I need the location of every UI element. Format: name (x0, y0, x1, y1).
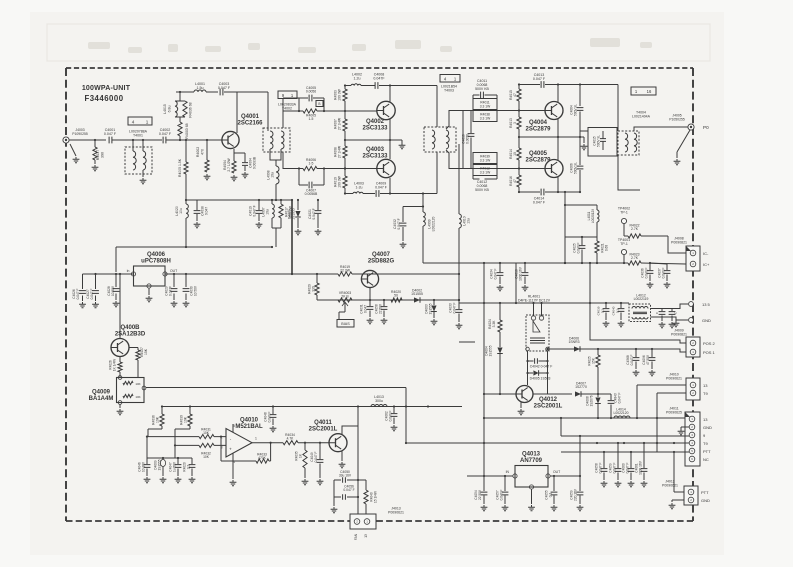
capacitor C4004 (234, 153, 257, 178)
node (291, 199, 293, 201)
ground center tap (399, 140, 406, 149)
wire (115, 247, 117, 272)
node (344, 167, 346, 169)
capacitor C4568 (626, 349, 639, 376)
svg-text:10K: 10K (135, 395, 140, 399)
svg-text:IN: IN (506, 470, 510, 474)
node (656, 442, 658, 444)
node (656, 417, 658, 419)
ground (581, 137, 588, 150)
node (304, 442, 306, 444)
wire (623, 224, 625, 237)
svg-text:IC-: IC- (703, 251, 709, 256)
node (357, 405, 359, 407)
inductor L4003 (353, 182, 364, 194)
wire (224, 91, 237, 93)
resistor R4001 (178, 158, 188, 200)
svg-text:2SC2001L: 2SC2001L (309, 427, 338, 433)
svg-text:390: 390 (100, 152, 104, 158)
resistor R4014 (509, 137, 521, 169)
svg-text:4.7K: 4.7K (287, 437, 295, 441)
svg-text:2SC3133: 2SC3133 (362, 154, 388, 160)
wire (380, 193, 437, 195)
node (649, 262, 651, 264)
capacitor C4033 (449, 300, 463, 329)
terminal GND (689, 318, 711, 323)
capacitor C4026 (72, 274, 86, 308)
svg-text:27 1/4W: 27 1/4W (338, 117, 342, 130)
node (581, 236, 583, 238)
transistor Q4011 (309, 420, 347, 452)
node (579, 136, 581, 138)
svg-text:Q4006: Q4006 (147, 252, 166, 258)
svg-text:1-5: 1-5 (309, 162, 314, 166)
node (630, 451, 632, 453)
svg-text:Q4003: Q4003 (366, 147, 385, 153)
svg-text:P0090821: P0090821 (671, 332, 687, 336)
svg-text:1S1555: 1S1555 (429, 303, 433, 314)
connector J4011 (666, 407, 712, 467)
diode D4003 (425, 300, 438, 325)
svg-text:0.047: 0.047 (364, 305, 368, 313)
wire (361, 85, 375, 87)
svg-text:Q4002: Q4002 (366, 119, 385, 125)
node (177, 457, 179, 459)
node (483, 393, 485, 395)
svg-text:0.0056: 0.0056 (306, 90, 316, 94)
node (636, 417, 638, 419)
svg-text:2K B: 2K B (341, 295, 349, 299)
filter box C4015 (588, 128, 617, 157)
wire (557, 85, 559, 103)
capacitor C4021 (308, 200, 321, 235)
node (344, 167, 346, 169)
svg-text:OUT: OUT (170, 269, 177, 273)
wire (147, 457, 192, 459)
wire (637, 384, 686, 386)
capacitor C4059 (570, 476, 584, 511)
wire rail (484, 417, 688, 419)
wire emitter (389, 178, 391, 194)
inductor L4008 (267, 160, 280, 200)
capacitor C4020b (183, 458, 196, 483)
node (526, 372, 528, 374)
node (344, 110, 346, 112)
node (579, 83, 581, 85)
svg-text:L0022119: L0022119 (634, 297, 649, 301)
connector J4008 (671, 237, 710, 272)
svg-text:GND: GND (703, 425, 712, 430)
svg-text:1000 16V: 1000 16V (639, 460, 643, 475)
transistor Q4001 (222, 114, 263, 149)
svg-text:0.047 F: 0.047 F (645, 268, 649, 279)
wire (116, 246, 272, 248)
node (323, 110, 325, 112)
ground (673, 320, 680, 327)
svg-text:33u 16V: 33u 16V (339, 474, 352, 478)
ratio box 1:16 (631, 87, 656, 95)
resistor R4039 (473, 153, 497, 164)
svg-text:1-2u: 1-2u (355, 185, 362, 189)
node (540, 302, 542, 304)
svg-text:0.0056: 0.0056 (466, 134, 470, 144)
node (280, 199, 282, 201)
wire (436, 152, 438, 194)
svg-text:0.047 F: 0.047 F (630, 355, 634, 366)
node (673, 451, 675, 453)
svg-text:Q4010: Q4010 (240, 418, 259, 424)
node (581, 262, 583, 264)
node (546, 348, 548, 350)
svg-text:300u: 300u (375, 399, 383, 403)
node (635, 348, 637, 350)
BIAS box (337, 320, 354, 328)
svg-text:Q400B: Q400B (120, 325, 140, 331)
svg-text:P0090621: P0090621 (388, 510, 404, 514)
capacitor C4036 (641, 263, 654, 288)
svg-text:D4005 1S583: D4005 1S583 (530, 377, 551, 381)
regulator Q4006 (127, 252, 178, 302)
node (357, 479, 359, 481)
svg-text:3.3 1W: 3.3 1W (480, 159, 491, 163)
svg-text:0.047 F: 0.047 F (159, 132, 172, 136)
svg-text:500V 9L: 500V 9L (574, 104, 578, 116)
svg-text:500V KB: 500V KB (475, 87, 489, 91)
resistor R4003 (178, 122, 189, 140)
wire (636, 385, 638, 418)
wire (458, 228, 460, 300)
node (617, 442, 619, 444)
svg-text:0.047 F: 0.047 F (626, 463, 630, 474)
capacitor C4032 (393, 207, 406, 248)
wire (677, 130, 690, 152)
node (344, 84, 346, 86)
capacitor C4062 (385, 407, 398, 431)
capacitor C4012 (473, 176, 497, 193)
capacitor C4055 (545, 476, 558, 511)
svg-text:0.0033B: 0.0033B (253, 156, 257, 169)
svg-text:220 16V: 220 16V (574, 488, 578, 501)
svg-text:15 1/4W: 15 1/4W (374, 491, 378, 503)
inductor L4020 (175, 200, 188, 247)
resistor R4019 (338, 265, 352, 276)
svg-text:1K 1/4W: 1K 1/4W (113, 359, 117, 371)
inductor L4002 (351, 73, 362, 86)
wire (345, 139, 402, 141)
node (589, 262, 591, 264)
inductor L4001 (194, 82, 206, 92)
svg-text:1u 50V: 1u 50V (173, 461, 177, 472)
svg-text:15K: 15K (144, 348, 148, 355)
svg-text:0.047 F: 0.047 F (577, 243, 581, 254)
node (524, 262, 526, 264)
capacitor C4048 (264, 407, 277, 432)
svg-text:47 50V: 47 50V (646, 354, 650, 365)
svg-text:2SC2166: 2SC2166 (237, 121, 263, 127)
svg-text:0.047 F: 0.047 F (618, 393, 622, 404)
resistor R4004 (223, 149, 237, 181)
svg-text:2SC2879: 2SC2879 (525, 127, 551, 133)
svg-text:10u: 10u (271, 172, 275, 178)
node (185, 273, 187, 275)
svg-text:0.047: 0.047 (205, 207, 209, 215)
node (564, 191, 566, 193)
svg-text:Q4005: Q4005 (529, 151, 548, 157)
svg-text:B: B (318, 102, 320, 106)
resistor R4025 (588, 349, 601, 394)
svg-text:P0090821: P0090821 (671, 240, 687, 244)
capacitor C4030 (183, 274, 198, 307)
resistor R4008 (334, 140, 348, 169)
svg-text:C4042 0-047 F: C4042 0-047 F (530, 365, 553, 369)
wire (446, 111, 463, 130)
wire (206, 91, 218, 93)
resistor R4032 (175, 443, 226, 459)
node (185, 139, 187, 141)
transistor Q4007 (361, 252, 394, 288)
transistor Q4012 (516, 386, 563, 410)
svg-text:P1090255: P1090255 (72, 132, 88, 136)
diode D4008 (586, 394, 601, 418)
wire (545, 84, 580, 86)
matching network L4015/R4036 (163, 92, 193, 122)
op-amp Q4010 (221, 418, 263, 465)
node (458, 299, 460, 301)
transformer T4002 (263, 103, 297, 153)
svg-text:0.047 F: 0.047 F (613, 463, 617, 474)
node (405, 405, 407, 407)
capacitor C4059b (609, 443, 622, 487)
node (532, 302, 534, 304)
svg-text:POS 1: POS 1 (703, 350, 716, 355)
node (179, 139, 181, 141)
node (643, 442, 645, 444)
svg-text:T4003: T4003 (444, 88, 454, 92)
node (369, 299, 371, 301)
inductor L4013 (371, 395, 387, 407)
wire (270, 149, 281, 160)
transformer T4004 (618, 111, 651, 156)
svg-text:1000 16V: 1000 16V (519, 266, 523, 281)
svg-text:500V 9L: 500V 9L (597, 135, 601, 147)
wire supply rail (186, 199, 292, 201)
svg-text:1-5: 1-5 (309, 117, 314, 121)
svg-text:50: 50 (394, 294, 398, 298)
svg-text:13: 13 (364, 534, 368, 538)
wire rail (162, 406, 462, 408)
wire (651, 317, 677, 320)
ground (669, 500, 684, 509)
node (389, 84, 391, 86)
node (161, 405, 163, 407)
wire base (484, 393, 516, 395)
svg-text:T9: T9 (703, 391, 708, 396)
capacitor C4034 (490, 263, 504, 291)
wire (557, 137, 559, 160)
node (518, 83, 520, 85)
wire bottom rail (519, 191, 540, 193)
wire (458, 144, 460, 214)
diode D4007 (575, 382, 587, 397)
connector J4010 (666, 373, 708, 401)
wire bottom rail (345, 193, 353, 195)
transformer T4001 (125, 130, 152, 184)
node (557, 191, 559, 193)
node (206, 139, 208, 141)
diode D4004 (485, 345, 503, 394)
node (94, 273, 96, 275)
capacitor C4019 (249, 200, 263, 228)
svg-text:0.047 F: 0.047 F (533, 200, 546, 204)
capacitor C4064 (570, 104, 584, 137)
svg-text:10u: 10u (179, 208, 183, 214)
resistor R4020 (391, 290, 402, 302)
capacitor C4014 (533, 189, 546, 205)
svg-text:IC+: IC+ (703, 262, 710, 267)
wire (641, 263, 686, 264)
resistor R4007 (334, 111, 348, 140)
wire (545, 191, 580, 193)
svg-text:1S2076: 1S2076 (590, 395, 594, 406)
inductor L4014 (613, 408, 630, 419)
connector J4003 (63, 128, 88, 143)
wire (598, 348, 655, 350)
svg-text:27 1/4W: 27 1/4W (338, 145, 342, 158)
node (174, 444, 176, 446)
svg-text:0.68: 0.68 (605, 245, 609, 251)
wire (579, 85, 581, 107)
resistor R4037 (92, 140, 105, 171)
svg-text:T4001: T4001 (133, 133, 143, 137)
svg-text:TP-1: TP-1 (620, 210, 628, 214)
wire (652, 349, 686, 352)
svg-text:GND: GND (702, 318, 711, 323)
wire B+ feed (564, 192, 566, 263)
node (499, 393, 501, 395)
wire (656, 393, 658, 452)
svg-text:500V KB: 500V KB (475, 188, 489, 192)
wire (283, 110, 299, 112)
svg-text:0.1: 0.1 (600, 309, 604, 314)
wire (446, 150, 463, 169)
node (422, 205, 424, 207)
wire rail (352, 273, 459, 275)
svg-text:2.7K: 2.7K (631, 227, 639, 231)
node (564, 262, 566, 264)
wire (550, 475, 580, 477)
node (673, 442, 675, 444)
ground (674, 152, 681, 165)
connector J4005 (669, 114, 709, 131)
svg-text:BIAS: BIAS (341, 322, 350, 326)
node (589, 302, 591, 304)
resistor R4006 (299, 158, 377, 171)
svg-text:C: C (674, 312, 678, 314)
svg-text:+: + (229, 447, 232, 452)
wire rail (237, 91, 268, 93)
node (623, 262, 625, 264)
node (605, 302, 607, 304)
svg-text:0.047 F: 0.047 F (533, 77, 546, 81)
transistor Q4002 (362, 101, 395, 131)
resistor R4026 (109, 357, 123, 378)
node (499, 262, 501, 264)
wire (547, 351, 549, 394)
capacitor C4001 (104, 128, 117, 143)
node (596, 262, 598, 264)
node (297, 199, 299, 201)
capacitor C4096 (642, 349, 655, 376)
svg-text:R4003 68: R4003 68 (185, 123, 189, 138)
node (185, 199, 187, 201)
wire (561, 451, 689, 453)
capacitor C4058 (595, 452, 608, 487)
wire (541, 303, 543, 316)
capacitor C4027 (86, 274, 99, 308)
svg-text:NC: NC (703, 457, 709, 462)
resistor R4030 (175, 407, 192, 446)
svg-text:100 3W: 100 3W (338, 175, 342, 187)
capacitor C4043 (608, 393, 622, 418)
wire (166, 139, 222, 141)
wire (175, 91, 177, 93)
node (597, 348, 599, 350)
capacitor C4002 (159, 128, 172, 143)
wire (623, 255, 625, 264)
node (142, 139, 144, 141)
connector J4012 (662, 480, 710, 506)
svg-text:10: 10 (513, 152, 517, 156)
svg-text:6.8u: 6.8u (167, 106, 171, 113)
svg-text:4: 4 (132, 120, 135, 125)
svg-text:TP-1: TP-1 (620, 242, 628, 246)
wire collector (119, 274, 121, 338)
node (483, 302, 485, 304)
svg-text:3: 3 (513, 122, 517, 124)
potentiometer VR4003 (338, 291, 352, 320)
svg-text:0.047 F: 0.047 F (253, 205, 257, 216)
wire (527, 351, 529, 385)
svg-text:POS 2: POS 2 (703, 341, 716, 346)
svg-text:0.047 F: 0.047 F (397, 218, 401, 229)
node (518, 136, 520, 138)
svg-text:1.5u: 1.5u (197, 86, 204, 90)
svg-text:0.047 F: 0.047 F (312, 208, 316, 219)
svg-text:10 50V: 10 50V (194, 285, 198, 296)
wire (580, 130, 588, 132)
node (518, 109, 520, 111)
cap electrolytic C4063 (154, 458, 167, 483)
wire (672, 304, 688, 309)
filter L4012 (629, 294, 651, 322)
svg-text:2.7K: 2.7K (631, 256, 639, 260)
resistor R4012 (473, 165, 497, 176)
capacitor C4029 (165, 274, 178, 307)
wire (557, 177, 559, 192)
svg-text:0.047 F: 0.047 F (375, 185, 387, 189)
diode D4001 (288, 200, 302, 235)
node (483, 442, 485, 444)
node (179, 91, 181, 93)
resistor R4040 (364, 480, 378, 514)
wire (146, 437, 148, 458)
svg-text:L0022120: L0022120 (432, 217, 436, 232)
svg-text:22 50V: 22 50V (478, 489, 482, 500)
node (564, 262, 566, 264)
svg-text:470K: 470K (258, 456, 267, 460)
resistor R4023 (628, 253, 641, 266)
ratio box 4:1 (T4003) (440, 75, 460, 83)
